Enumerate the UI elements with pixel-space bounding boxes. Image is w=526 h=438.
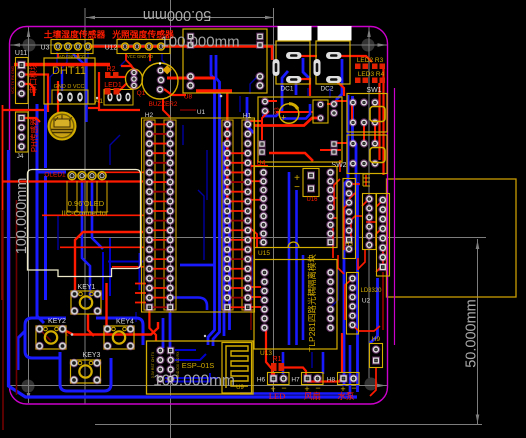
capacitor C1 region [258,97,342,162]
wire blue traces into H2 left [108,253,144,290]
wire dimension line 100mm bottom [10,385,387,387]
svg-text:DC1: DC1 [280,86,293,93]
wire dimension line 100mm left [28,27,30,403]
resistor R1 [271,356,284,371]
svg-text:BUZZER2: BUZZER2 [149,101,178,108]
connector H1 [14,7,480,401]
connector H9 [370,336,383,368]
module U8 [183,29,267,101]
connector H6 [257,373,289,402]
connector U7 column [377,194,390,277]
wire red trace H2 to ESP [149,307,156,341]
wire inner outline segment x=394.5 [394,88,396,345]
svg-text:+: + [281,113,286,123]
connector DC2 [314,26,352,93]
resistor R2 [105,66,119,78]
svg-text:U8: U8 [184,94,193,101]
svg-text:−: − [294,182,300,193]
wire maroon traces [3,110,251,430]
svg-text:土壤湿度传感器: 土壤湿度传感器 [44,29,106,40]
wire extension line x=369 [368,27,370,378]
wire red traces cap box [255,101,334,161]
svg-text:U2: U2 [362,298,371,305]
node dimension-anchor bottom-left [22,380,35,393]
wire red trace H1 column vertical [226,91,228,200]
switch KEY2 [35,318,67,350]
wire red traces buzzer area [110,66,232,95]
wire blue loops around keys [18,318,143,391]
wire extension line x=275 [273,8,275,392]
wire extension line y=237.5 [2,237,486,239]
wire blue traces DHT11 [62,54,87,122]
node coil silkscreen [363,174,370,186]
led LED1 [104,82,122,95]
svg-text:U16: U16 [306,197,318,203]
switch KEY1 [70,284,102,315]
svg-text:H7: H7 [291,377,300,384]
wire dimension line 50mm top [86,17,274,19]
connector A1 [95,90,133,106]
wire blue traces in ESP module [165,350,218,382]
svg-text:KEY1: KEY1 [78,284,96,291]
wire blue trace left verticals [37,104,66,323]
svg-text:LED2 R3: LED2 R3 [357,57,384,64]
wire red traces key area [62,232,158,336]
svg-text:H2: H2 [145,112,154,119]
wire blue traces below OLED [103,238,110,300]
wire extension line x=170.5 [170,0,172,438]
connector U3 [41,29,106,60]
svg-text:水泵: 水泵 [337,391,355,401]
svg-text:J4: J4 [17,153,24,160]
wire extension line y=424.5 [95,424,482,426]
wire blue traces DC area [247,58,342,133]
svg-text:ESP–01S: ESP–01S [182,361,215,370]
switch KEY3 [70,352,102,384]
svg-text:GND D VCC: GND D VCC [54,84,85,90]
connector U12 [105,29,174,60]
svg-text:串口模块: 串口模块 [28,62,38,93]
wire dimension line 50mm right [477,239,479,425]
switch SW2 [331,135,387,174]
module U13 TLP281 [254,254,337,357]
connector U6 column [363,194,377,250]
connector H7 [291,373,323,402]
connector U11 [11,50,38,104]
transistor Q1 [126,69,146,97]
wire red traces from U12 [126,53,150,66]
svg-text:U1: U1 [197,109,206,116]
svg-text:KEY2: KEY2 [48,318,66,325]
svg-text:50.000mm: 50.000mm [143,7,212,23]
svg-text:100.000mm: 100.000mm [14,178,30,255]
svg-text:DC2: DC2 [320,86,333,93]
wire blue trace H2 col2 bend [170,298,207,311]
svg-text:R1: R1 [273,356,282,363]
node planning region rectangle [387,179,517,297]
wire red trace colC down [382,272,384,330]
socket U1 [142,109,255,312]
svg-text:U12: U12 [105,45,118,52]
wire red trace U4 links [250,121,268,166]
svg-text:KEY3: KEY3 [83,352,101,359]
switch SW1 [347,87,387,132]
wire H1 row links [227,153,248,307]
wire red traces right flank [333,184,383,396]
svg-text:LED: LED [269,391,286,401]
svg-text:DHT11: DHT11 [52,65,86,77]
svg-text:SW2: SW2 [331,162,346,169]
svg-text:VCC TX RX GND: VCC TX RX GND [11,66,15,94]
wire blue trace through cap [282,104,310,119]
wire H2 row links [149,124,170,307]
wire blue TLP verticals [283,172,323,374]
svg-text:100.000mm: 100.000mm [153,373,235,390]
wire blue trace bottom bus 2 [240,345,350,394]
module U9 ESP-01S [147,341,254,394]
svg-text:LED1: LED1 [104,82,122,89]
wire red stubs H2 left [135,284,146,303]
capacitor U16 [294,169,319,204]
wire red trace top bus [90,47,272,61]
node junction dots [71,333,74,336]
wire red stubs U3 to DHT11 [58,53,78,58]
node dimension-anchor bottom-right [365,378,378,391]
svg-text:R2: R2 [107,66,116,73]
connector H8 [327,373,359,402]
connector J4 [16,112,39,160]
module U2 LD3320 [347,273,383,335]
svg-text:风扇: 风扇 [304,391,321,401]
svg-text:U11: U11 [15,50,27,57]
node dimension-anchor top-right [362,39,375,52]
svg-text:U9: U9 [236,385,244,391]
svg-text:TLP281四路光耦隔离模块: TLP281四路光耦隔离模块 [307,254,317,352]
node logo emblem [49,113,76,140]
svg-text:KEY4: KEY4 [116,319,134,326]
sensor DHT11 [44,58,95,104]
svg-text:PH传感器: PH传感器 [29,118,39,152]
svg-text:C3: C3 [275,107,281,114]
wire dark blue traces [50,52,359,368]
svg-text:U13: U13 [260,350,272,357]
svg-text:0.96'OLED: 0.96'OLED [68,199,105,208]
wire red traces SW area [320,101,375,150]
svg-text:100.000mm: 100.000mm [160,34,239,51]
wire red trace left edge [2,105,4,300]
svg-text:U4: U4 [257,160,266,167]
svg-text:50.000mm: 50.000mm [464,299,480,368]
connector OLED1 [44,172,109,218]
wire board outline [10,27,388,405]
socket U15 [254,160,337,257]
led LED2 resistor R3 [355,57,385,69]
led LED3 resistor R4 [355,71,385,83]
svg-text:A1: A1 [95,98,103,105]
svg-text:H1: H1 [243,113,252,120]
wire extension line x=85 [84,8,86,404]
wire red traces bottom connectors [266,330,342,382]
svg-text:H6: H6 [257,377,266,384]
wire red traces H1 to U15 [249,181,261,307]
svg-text:OLED1: OLED1 [44,172,66,179]
wire red traces top-left [2,65,143,182]
svg-text:H8: H8 [327,377,336,384]
display OLED module outline [28,170,141,277]
capacitor C5 [313,100,328,123]
connector H2 [14,7,480,401]
wire red trace buzzer to H2 [163,99,170,117]
wire red traces mid-right weave [330,160,382,274]
svg-text:IIC-Connector: IIC-Connector [62,209,109,218]
svg-text:VCC GND AD: VCC GND AD [127,54,153,59]
connector DC1 [273,26,312,93]
svg-text:LED3 R4: LED3 R4 [358,71,385,78]
node dimension-anchor top-left [23,39,36,52]
svg-text:U15: U15 [258,250,270,257]
switch KEY4 [103,319,135,351]
wire red traces DC area [294,56,384,175]
svg-text:H3: H3 [345,242,353,248]
connector H3 [343,179,356,259]
wire blue trace left edge + bottom bus [9,150,358,397]
wire red traces into H2 left [42,172,144,266]
svg-text:H9: H9 [372,336,381,343]
svg-text:U3: U3 [41,45,50,52]
wire blue traces OLED area [82,181,103,300]
wire blue center verticals [163,55,230,348]
wire blue right flank verticals [344,95,378,392]
buzzer BUZZER2 [142,62,178,108]
wire dimension line 100mm top [11,44,388,46]
svg-text:LD3320: LD3320 [360,288,382,294]
